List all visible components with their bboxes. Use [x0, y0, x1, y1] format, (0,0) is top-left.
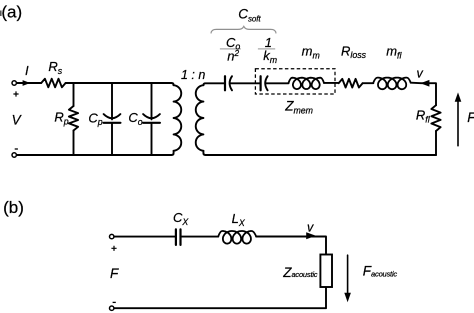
fraction bar of Co/n2 — [220, 48, 241, 50]
capacitor 1/km straight plate — [260, 76, 262, 90]
current I arrowhead — [23, 80, 31, 86]
wire bottom left from input terminal to transformer primary — [16, 151, 173, 155]
force F arrowhead (a) pointing up — [455, 92, 462, 101]
wire secondary bottom to right side — [203, 151, 436, 155]
force F arrow shaft (a) — [457, 100, 459, 146]
svg-text:(a): (a) — [1, 3, 22, 22]
wire R_p bottom — [73, 131, 75, 156]
wire R_loss to m_fl — [363, 82, 374, 84]
wire R_fl to bottom right corner — [435, 131, 437, 155]
minus sign (a) — [15, 148, 18, 150]
C_soft overbrace — [211, 26, 276, 33]
input terminal top (b) — [110, 234, 114, 238]
Z_mem dashed box — [255, 69, 335, 94]
wire cap Co/n2 to cap 1/km — [230, 82, 260, 84]
capacitor 1/km curved plate — [265, 76, 267, 90]
node R_p branch top wire — [73, 83, 75, 106]
svg-text:I: I — [25, 63, 29, 78]
wire m_fl to top right corner, down right side — [411, 83, 436, 106]
capacitor Co/n2 curved plate — [230, 76, 232, 90]
plus sign (a) — [13, 91, 18, 96]
transformer primary winding — [174, 85, 182, 151]
inductor L_X coil — [218, 231, 256, 244]
capacitor C_p branch: stem, curved plate, straight plate, stem — [111, 83, 113, 119]
resistor R_fl — [431, 105, 440, 131]
minus sign (b) — [113, 301, 116, 303]
wire C_X to L_X — [181, 236, 219, 238]
resistor R_loss — [339, 79, 363, 88]
svg-text:v: v — [417, 66, 424, 80]
svg-text:v: v — [307, 221, 314, 235]
fraction bar of 1/km — [258, 48, 275, 50]
wire top left from input terminal to Rs — [16, 82, 41, 84]
wire L_X to corner above Z_acoustic, down to block — [256, 237, 326, 255]
input terminal bottom (a) — [12, 153, 16, 157]
force F_acoustic arrow shaft (b) — [347, 255, 349, 294]
resistor R_p — [69, 106, 78, 131]
resistor R_s — [41, 79, 65, 88]
inductor m_m coil — [289, 78, 325, 89]
wire m_m to R_loss — [324, 82, 339, 84]
input terminal bottom (b) — [110, 306, 114, 310]
wire cap 1/km to inductor m_m — [265, 82, 288, 84]
capacitor C_o branch: stem, curved plate, straight plate, stem — [151, 83, 153, 119]
capacitor C_X right plate — [179, 229, 181, 245]
svg-text:(b): (b) — [3, 198, 24, 217]
velocity v arrowhead (b) pointing right — [306, 232, 316, 239]
force F_acoustic arrowhead (b) pointing down — [344, 293, 351, 302]
svg-text:1 : n: 1 : n — [181, 68, 205, 82]
wire from Rs to transformer primary, through junctions — [66, 83, 174, 85]
svg-text:F: F — [110, 266, 119, 281]
circuit (b): wire input terminal to C_X — [114, 236, 176, 238]
cropped glyph fragment at left edge — [0, 11, 2, 17]
input terminal top (a) — [12, 81, 16, 85]
velocity v arrowhead (a) pointing left — [420, 80, 429, 87]
inductor m_fl coil — [373, 78, 410, 90]
capacitor C_X left plate — [175, 229, 177, 245]
plus sign (b) — [111, 246, 116, 251]
Z_acoustic impedance block — [320, 255, 332, 288]
wire Z_acoustic block to bottom, and bottom wire back to terminal — [114, 287, 326, 308]
svg-text:F: F — [467, 110, 474, 125]
capacitor Co/n2 straight plate — [224, 76, 226, 90]
transformer secondary winding — [196, 85, 204, 151]
wire secondary top to capacitor Co/n2 — [203, 83, 224, 85]
